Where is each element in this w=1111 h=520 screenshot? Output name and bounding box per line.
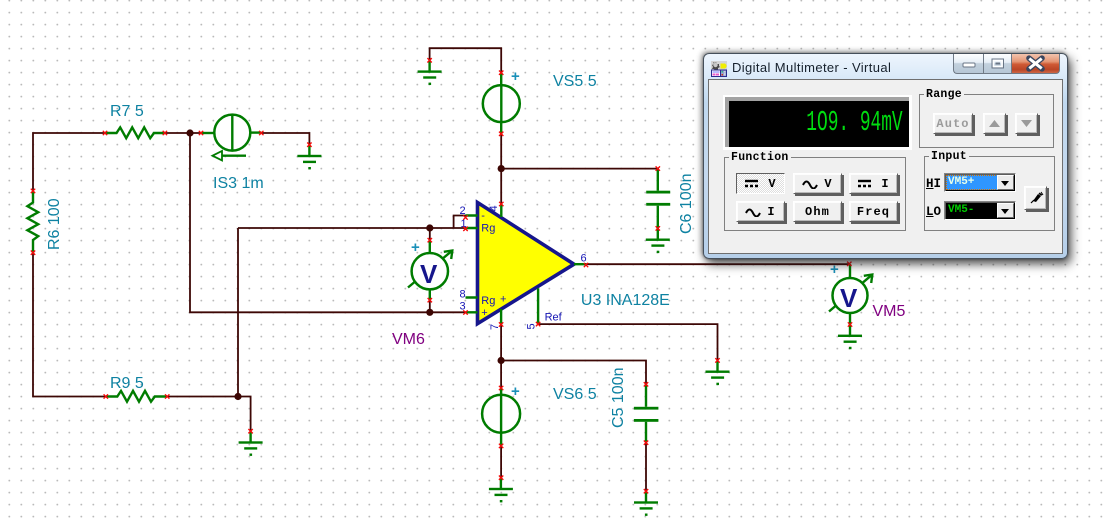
wire VS5 to junction [500,134,502,169]
wire R6 to R9 rail [33,253,106,397]
svg-text:VM5: VM5 [873,303,906,320]
resistor R6 [27,191,63,253]
svg-text:6: 6 [581,253,587,265]
svg-text:Rg: Rg [481,223,495,235]
wire junction to C5 [501,361,646,385]
svg-text:-: - [481,210,485,222]
wire left loop top rail [33,133,105,191]
wire C5 to ground [645,443,647,492]
svg-text:VS5 5: VS5 5 [553,73,597,90]
current source IS3 [201,115,264,192]
svg-text:+: + [511,383,520,400]
ground (C5) [634,491,658,516]
ground (VM5) [838,335,862,350]
wire pin5 Ref to ground [538,324,717,359]
ground (IS3) [297,145,321,170]
voltmeter VM5 [829,261,872,325]
svg-text:IS3 1m: IS3 1m [213,175,264,192]
svg-text:Rg: Rg [481,295,495,307]
svg-text:R7 5: R7 5 [110,103,144,120]
wire VM5 to ground [849,325,851,336]
svg-text:+: + [830,261,839,278]
ground (C6) [646,228,670,253]
label U3 INA128E [581,292,670,309]
voltmeter VM6 [408,228,452,312]
resistor R7 [105,103,165,138]
capacitor C5 [610,368,658,443]
svg-text:+: + [500,294,506,306]
wire R7 to IS3 [165,132,201,134]
junction R9/vertical [234,393,241,400]
junction VM6 bottom [426,309,433,316]
svg-text:3: 3 [460,300,466,312]
wire IS3 to ground [261,133,309,144]
svg-text:+: + [411,239,420,256]
display [723,95,912,150]
svg-text:V: V [840,283,858,313]
svg-text:C5 100n: C5 100n [610,368,627,429]
junction IS3/R7 node [186,129,193,136]
svg-text:VS6 5: VS6 5 [553,386,597,403]
voltage source VS6 [482,361,597,446]
ground (Ref) [706,360,730,385]
svg-text:4: 4 [488,205,500,211]
svg-text:C6 100n: C6 100n [678,174,695,235]
wire VS6 to ground [500,446,502,478]
resistor R9 [106,375,167,402]
Function group [724,157,906,231]
wire node to bottom rail [190,133,466,312]
svg-text:U3 INA128E: U3 INA128E [581,292,670,309]
ground (VS6) [489,478,513,503]
svg-text:2: 2 [460,205,466,217]
voltage source VS5 [483,68,597,134]
multimeter window [703,53,1068,259]
svg-text:R9 5: R9 5 [110,375,144,392]
wire junction to C6 [501,168,658,170]
label VM5 [873,303,906,320]
svg-text:+: + [511,68,520,85]
Range group [919,94,1054,148]
ground (VS5) [418,60,442,85]
pin connection x-marks [31,58,852,493]
wire top rail to pins 1,2 [238,216,466,229]
svg-text:R6 100: R6 100 [46,198,63,250]
wire pin7 down [500,325,502,361]
svg-text:V: V [420,259,438,289]
svg-text:8: 8 [460,289,466,301]
wire vertical mid (pins 1/2 rail drop) [237,228,239,397]
Input group [924,156,1055,231]
wire VS5 ground to VS5 [430,48,502,72]
ground (R9) [239,431,263,456]
op-amp U3 [460,203,587,331]
junction VM6 top [426,224,433,231]
wire R9 to ground branch [167,397,251,432]
label VM6 [392,331,425,348]
junction pin7/VS6/C5 [498,357,505,364]
junction VS5/C6/pin4 [498,165,505,172]
svg-text:VM6: VM6 [392,331,425,348]
svg-text:+: + [481,307,487,319]
wire junction to pin4 [500,169,502,204]
capacitor C6 [646,169,695,234]
svg-text:5: 5 [526,323,538,329]
wire pin6 output [586,263,850,265]
svg-text:Ref: Ref [545,312,563,324]
